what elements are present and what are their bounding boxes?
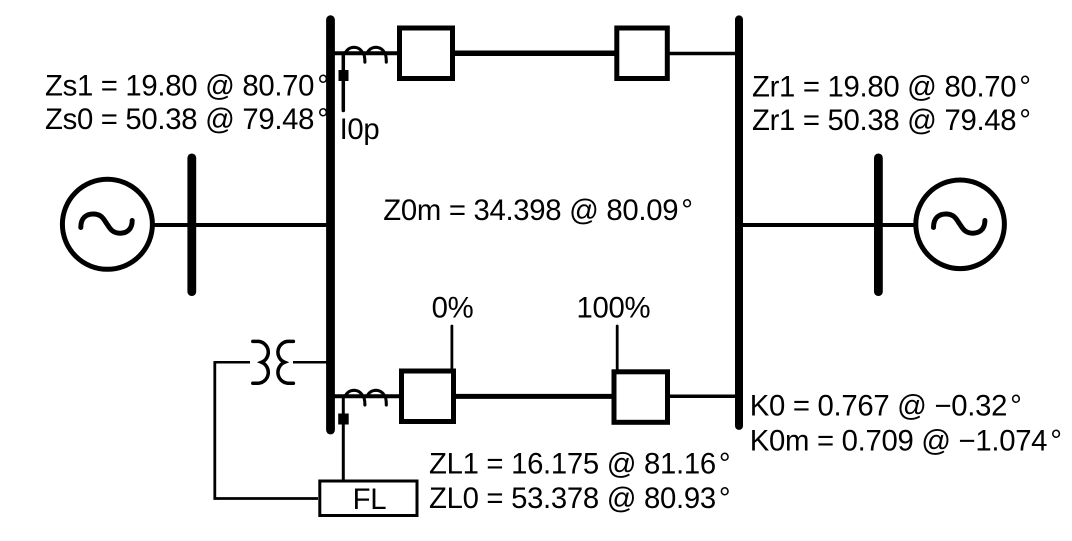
svg-text:ZL1 = 16.175 @ 81.16°: ZL1 = 16.175 @ 81.16° [429,448,730,481]
bus R (right main bus) [735,19,743,426]
CT bottom polarity square [338,414,349,425]
source R (right generator) [916,180,1005,269]
svg-text:FL: FL [353,483,387,516]
CT top (I0p) coil loops [345,47,386,62]
svg-text:K0 = 0.767 @ −0.32°: K0 = 0.767 @ −0.32° [750,390,1022,423]
wire top line: bus S to breaker box [330,51,400,55]
tick 0% [450,326,453,369]
VT wire: bus S to transformer [293,361,327,364]
VT wire: transformer to vertical drop [214,361,251,364]
svg-text:Z0m = 34.398 @ 80.09°: Z0m = 34.398 @ 80.09° [383,194,692,227]
tick 100% [616,326,619,370]
bus S (left main bus) [326,20,335,430]
svg-text:I0p: I0p [340,113,380,146]
source S (left generator) [62,179,152,269]
svg-text:Zs1 = 19.80 @ 80.70°: Zs1 = 19.80 @ 80.70° [45,70,329,103]
svg-text:0%: 0% [432,292,474,325]
breaker box bottom-right [614,372,668,423]
transformer coil right [278,341,293,383]
breaker box top-right [617,28,668,79]
wire bottom line: bus S to breaker box [330,394,402,398]
wire top line: between breaker boxes [454,50,616,56]
wire main right: bus R to source R [739,223,960,227]
wire main left: source S to bus S [107,223,330,227]
svg-text:Zs0 = 50.38 @ 79.48°: Zs0 = 50.38 @ 79.48° [45,103,329,136]
transformer coil left [253,341,268,383]
CT top polarity square [339,70,349,81]
wire top line: breaker box to bus R [668,52,739,56]
CT bottom lead wire to FL [342,398,345,480]
svg-text:K0m = 0.709 @ −1.074°: K0m = 0.709 @ −1.074° [750,425,1062,458]
source R bus bar [874,158,883,292]
CT top lead wire [342,55,346,111]
svg-text:Zr1 = 19.80 @ 80.70°: Zr1 = 19.80 @ 80.70° [752,70,1031,103]
breaker box bottom-left [402,371,454,422]
breaker box top-left [400,28,453,79]
FL box [320,481,417,516]
wire bottom line: between breaker boxes [454,394,614,399]
svg-text:Zr1 = 50.38 @ 79.48°: Zr1 = 50.38 @ 79.48° [752,104,1031,137]
wire: transformer down-left to FL [215,362,318,498]
wire bottom line: breaker box to bus R [668,395,739,399]
CT bottom coil loops [345,390,386,405]
svg-text:100%: 100% [577,292,651,325]
source S bus bar [187,158,196,292]
svg-text:ZL0 = 53.378 @ 80.93°: ZL0 = 53.378 @ 80.93° [429,482,730,515]
